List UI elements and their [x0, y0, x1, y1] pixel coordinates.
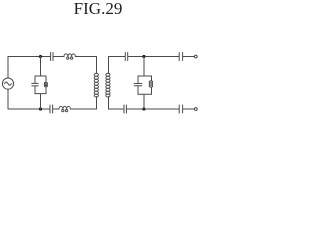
wire: right circuit bottom	[109, 108, 195, 110]
wire: left circuit left side lower	[7, 89, 9, 109]
svg-text:FIG.29: FIG.29	[74, 0, 123, 18]
inductor L2 (shunt branch left circuit)	[44, 76, 47, 94]
capacitor C2 (shunt branch left circuit)	[32, 76, 38, 94]
AC source G1	[2, 78, 13, 89]
inductor L3 (series, bottom wire left circuit)	[59, 106, 70, 111]
capacitor C6 (series, bottom wire right circuit)	[124, 105, 126, 113]
wire: left shunt branch stubs and bars	[35, 57, 46, 110]
node D (bottom junction dot, right circuit)	[142, 107, 145, 110]
transformer T1 secondary coil	[106, 57, 110, 110]
inductor L1 (series, top wire left circuit)	[64, 54, 75, 59]
capacitor C1 (series, top wire left circuit)	[51, 53, 53, 61]
node C (top junction dot, right circuit)	[142, 55, 145, 58]
wire: left circuit top	[8, 56, 97, 58]
wire: right shunt branch stubs and bars	[138, 57, 152, 110]
capacitor C5 (shunt branch right circuit)	[134, 76, 142, 94]
capacitor C3 (series, bottom wire left circuit)	[50, 105, 53, 113]
wire: left circuit bottom	[8, 108, 97, 110]
wire: right circuit top	[109, 56, 195, 58]
terminal P2 (bottom right)	[194, 108, 197, 111]
capacitor C4 (series, top wire right circuit)	[125, 53, 127, 61]
terminal P1 (top right)	[194, 55, 197, 58]
title FIG.29	[74, 0, 123, 18]
capacitor C7 (series, top right output)	[179, 53, 182, 61]
wire: left circuit left side upper	[7, 57, 9, 79]
inductor L5 (shunt branch right circuit)	[149, 76, 152, 94]
transformer T1 primary coil	[94, 57, 98, 110]
capacitor C8 (series, bottom right output)	[179, 105, 182, 113]
node A (top junction dot, left circuit)	[39, 55, 42, 58]
node B (bottom junction dot, left circuit)	[39, 107, 42, 110]
